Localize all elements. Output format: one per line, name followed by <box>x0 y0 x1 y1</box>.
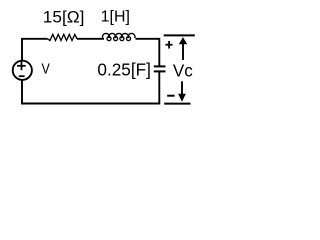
svg-text:0.25[F]: 0.25[F] <box>97 60 150 80</box>
svg-text:Vc: Vc <box>173 60 193 80</box>
svg-text:V: V <box>42 62 51 78</box>
svg-text:15[Ω]: 15[Ω] <box>43 8 85 26</box>
svg-text:1[H]: 1[H] <box>101 9 130 26</box>
